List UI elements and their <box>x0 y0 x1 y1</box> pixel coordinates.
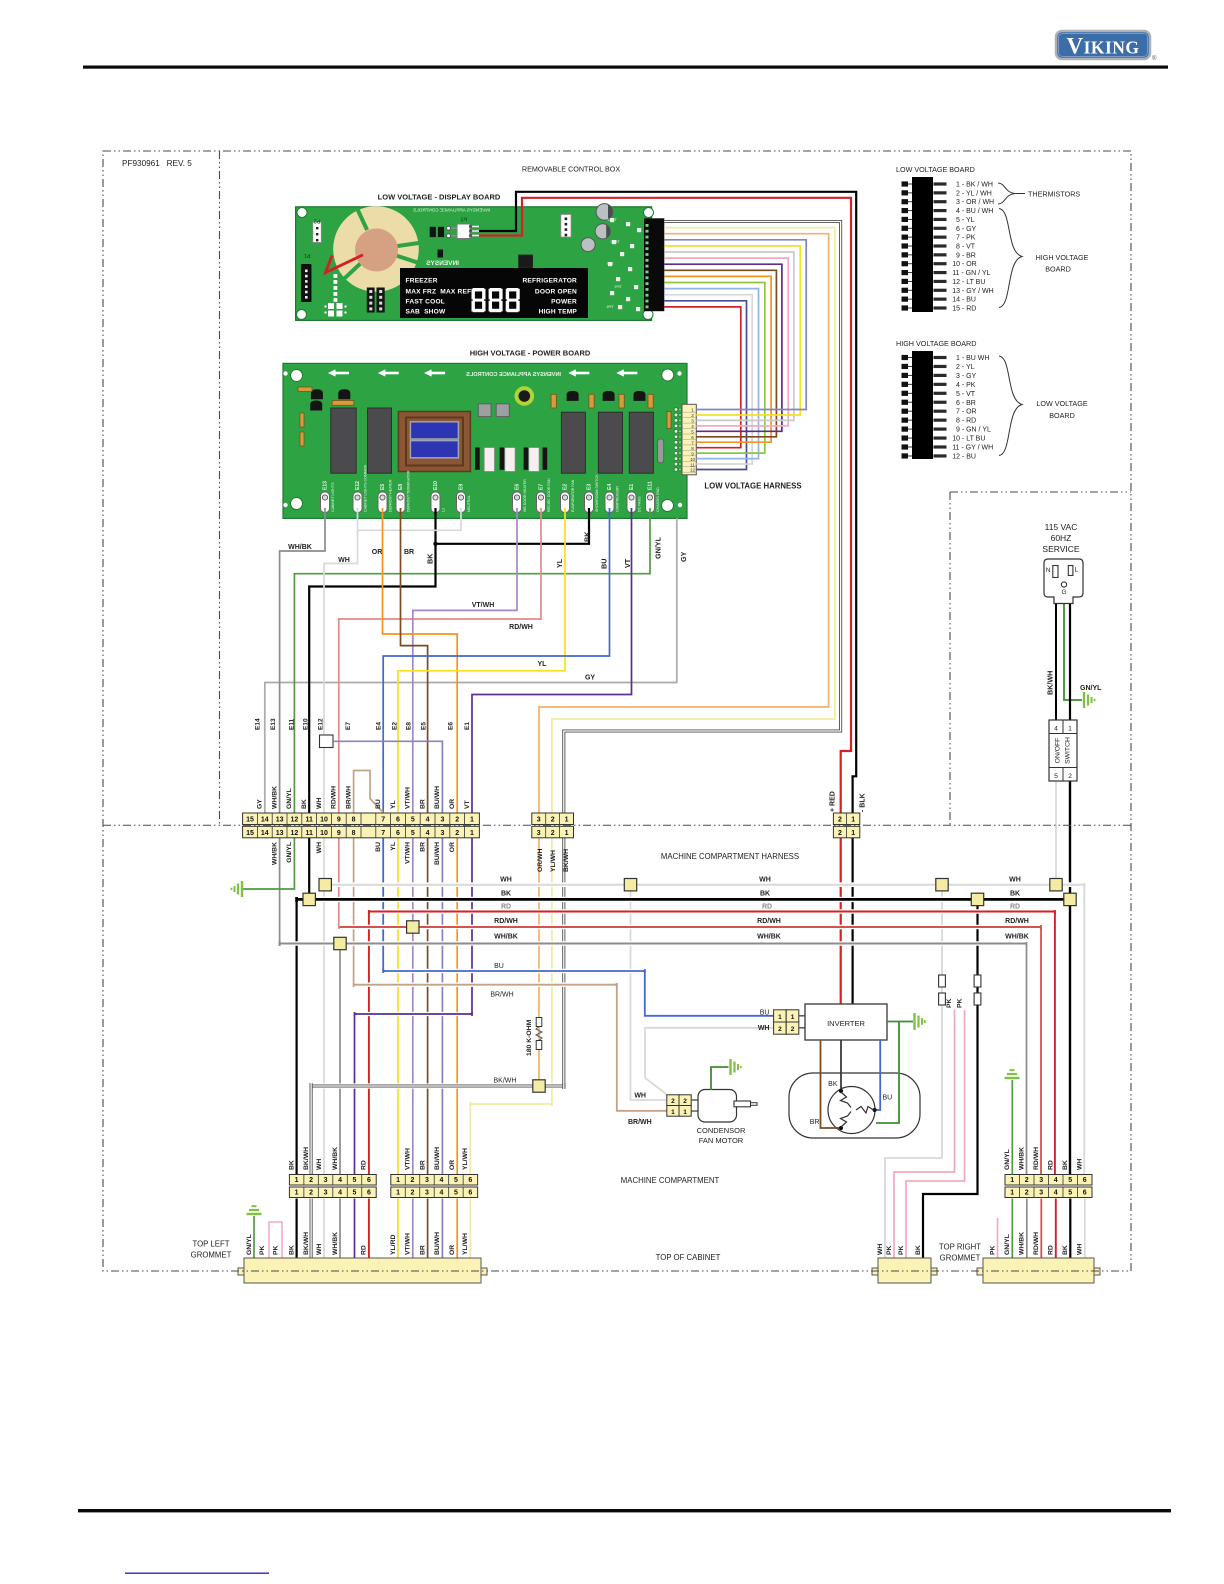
svg-text:2: 2 <box>411 1190 415 1197</box>
wire harness RD display pin15 to power pin <box>664 307 741 448</box>
wire BU strip pin7 to inverter connector <box>383 837 773 1016</box>
svg-text:6 - GY: 6 - GY <box>956 226 977 233</box>
display board aux connector 2d <box>561 214 571 237</box>
svg-text:E6: E6 <box>515 484 521 490</box>
svg-text:PK: PK <box>898 1245 905 1255</box>
svg-text:WH: WH <box>759 877 771 884</box>
svg-text:6: 6 <box>367 1190 371 1197</box>
svg-text:BK: BK <box>288 1245 295 1255</box>
svg-text:BK: BK <box>1062 1160 1069 1170</box>
svg-text:WH: WH <box>316 798 323 809</box>
svg-text:1: 1 <box>851 830 855 837</box>
svg-text:7: 7 <box>381 830 385 837</box>
svg-text:11 - GN / YL: 11 - GN / YL <box>952 270 990 277</box>
svg-text:SWITCH: SWITCH <box>1065 737 1072 764</box>
svg-text:BK: BK <box>301 799 308 809</box>
bus BU to inverter <box>385 969 643 973</box>
power board small transistors and resistors <box>298 387 671 446</box>
svg-text:RD: RD <box>1010 904 1020 911</box>
svg-text:8 - RD: 8 - RD <box>956 418 976 425</box>
svg-text:EVAPORATOR FAN: EVAPORATOR FAN <box>571 479 575 512</box>
svg-text:LOW VOLTAGE - DISPLAY BOARD: LOW VOLTAGE - DISPLAY BOARD <box>378 193 501 202</box>
svg-text:RD: RD <box>1048 1245 1055 1255</box>
display board P3 connector <box>447 218 480 239</box>
svg-text:WH/BK: WH/BK <box>1019 1232 1026 1255</box>
svg-text:2: 2 <box>455 817 459 824</box>
svg-text:HIGH TEMP: HIGH TEMP <box>539 309 578 316</box>
label CONDENSOR FAN MOTOR <box>697 1126 746 1145</box>
svg-text:P1: P1 <box>304 252 311 258</box>
svg-text:BK: BK <box>501 891 511 898</box>
high voltage board brace <box>999 209 1089 308</box>
wire harness GY display pin6 to power pin <box>664 252 794 420</box>
svg-text:GN/YL: GN/YL <box>1004 1149 1011 1170</box>
svg-text:6: 6 <box>691 435 694 440</box>
svg-text:YL/WH: YL/WH <box>462 1233 469 1255</box>
resistor 180 K-OHM on OR/WH wire <box>526 1018 542 1057</box>
svg-text:CONDENSOR: CONDENSOR <box>697 1126 746 1135</box>
svg-text:14 - BU: 14 - BU <box>952 297 976 304</box>
svg-text:PK: PK <box>272 1245 279 1255</box>
svg-text:1: 1 <box>851 817 855 824</box>
wire BK/WH 321conn pin1 via run to bottom connector A2 <box>311 837 564 1175</box>
svg-text:3: 3 <box>440 830 444 837</box>
svg-text:5 - YL: 5 - YL <box>956 217 975 224</box>
display board P2 connector <box>313 218 322 243</box>
wire OR from E5 to strip pin2 <box>383 508 458 813</box>
svg-text:GN/YL: GN/YL <box>286 842 293 863</box>
svg-text:12 - BU: 12 - BU <box>952 453 976 460</box>
svg-text:- BLK: - BLK <box>860 793 867 812</box>
wire VT from E1 to strip pin1 <box>472 508 632 813</box>
bus labels mid group <box>757 877 781 941</box>
svg-text:1: 1 <box>778 1014 782 1021</box>
connector strip 3 2 1 <box>532 813 574 825</box>
wire BR/WH loop at strip pin8 <box>354 771 384 814</box>
svg-text:CABINET LIGHTS: CABINET LIGHTS <box>331 482 335 512</box>
power board terminal row <box>321 464 661 512</box>
svg-text:MAX FRZ MAX REF: MAX FRZ MAX REF <box>406 289 472 296</box>
svg-text:1: 1 <box>470 830 474 837</box>
svg-text:5: 5 <box>454 1190 458 1197</box>
svg-text:TOP OF CABINET: TOP OF CABINET <box>656 1253 721 1262</box>
wire RD/WH from E7 to strip pin9 <box>339 508 541 813</box>
svg-text:BR: BR <box>810 1119 820 1126</box>
svg-text:14: 14 <box>261 830 269 837</box>
svg-text:6: 6 <box>367 1177 371 1184</box>
condenser fan connector 2x2 <box>667 1095 691 1116</box>
svg-text:2: 2 <box>1068 773 1072 780</box>
svg-text:®: ® <box>1152 55 1157 62</box>
svg-text:10 - OR: 10 - OR <box>952 261 977 268</box>
svg-text:9: 9 <box>337 817 341 824</box>
svg-text:REFRIGERATOR: REFRIGERATOR <box>522 278 577 285</box>
bus RD/WH machine harness <box>341 925 1039 930</box>
wire WH top right vertical from bus corner to connector C6 <box>1083 885 1085 1175</box>
svg-text:SERVICE: SERVICE <box>1042 544 1079 554</box>
svg-text:WH: WH <box>634 1093 646 1100</box>
svg-text:3: 3 <box>1039 1190 1043 1197</box>
svg-text:YL/WH: YL/WH <box>550 850 557 872</box>
bus labels left group <box>490 877 518 1085</box>
svg-text:BR/WH: BR/WH <box>628 1119 652 1126</box>
display board pad cluster <box>325 303 347 317</box>
wire WH/BK from E13 to strip pin13 <box>280 508 325 813</box>
svg-text:VT/WH: VT/WH <box>405 842 412 864</box>
wire WH/BK bus drop to connector A4 <box>339 944 341 1175</box>
display board white pad column <box>334 274 338 302</box>
ground symbol fan <box>731 1059 741 1075</box>
svg-text:WH: WH <box>500 877 512 884</box>
svg-text:E3: E3 <box>587 484 593 490</box>
svg-text:7: 7 <box>691 440 694 445</box>
svg-text:BK/WH: BK/WH <box>303 1232 310 1255</box>
wire GN fan to ground <box>711 1067 729 1090</box>
svg-text:12: 12 <box>291 817 299 824</box>
top right grommet bar <box>977 1258 1100 1283</box>
svg-text:2: 2 <box>691 413 694 418</box>
svg-text:8 - VT: 8 - VT <box>956 243 976 250</box>
svg-text:GN/YL: GN/YL <box>1080 685 1102 692</box>
svg-text:RD/WH: RD/WH <box>757 918 781 925</box>
svg-text:WH/BK: WH/BK <box>271 842 278 865</box>
wire YL from E2 to strip pin6 <box>398 508 565 813</box>
svg-text:1 - BK / WH: 1 - BK / WH <box>956 182 993 189</box>
wire BK strip pin11 to BK bus junction <box>308 837 310 900</box>
svg-text:TP22: TP22 <box>607 217 617 222</box>
svg-text:1: 1 <box>791 1014 795 1021</box>
svg-text:DOOR OPEN: DOOR OPEN <box>535 289 577 296</box>
removable control box divider <box>219 151 221 825</box>
svg-text:3: 3 <box>324 1177 328 1184</box>
svg-text:INVENSYS APPLIANCE CONTROLS: INVENSYS APPLIANCE CONTROLS <box>466 372 561 378</box>
wires below connector C to top right grommet <box>1011 1199 1013 1259</box>
label TOP LEFT GROMMET <box>191 1240 232 1260</box>
wire harness BU/WH display pin4 to power pin <box>664 240 806 410</box>
inline connectors on BK drop <box>974 975 981 987</box>
service compartment border <box>950 492 1131 825</box>
svg-text:GN/YL: GN/YL <box>286 788 293 809</box>
svg-text:VT/WH: VT/WH <box>405 1233 412 1255</box>
svg-text:BK: BK <box>1062 1245 1069 1255</box>
svg-text:RD: RD <box>762 904 772 911</box>
svg-text:11: 11 <box>690 462 695 467</box>
small right grommet bar <box>872 1258 937 1283</box>
wire BU/WH from E12 box to strip pin3 <box>333 741 442 813</box>
svg-text:12 - LT BU: 12 - LT BU <box>952 279 985 286</box>
wire BK switch pin2 to BK bus and top right connector C5 <box>1069 781 1071 1175</box>
wire BK inverter to compressor <box>840 1040 842 1089</box>
svg-text:TP12: TP12 <box>610 239 620 244</box>
svg-text:WH/BK: WH/BK <box>1005 934 1029 941</box>
bus WH/BK machine harness <box>282 941 1025 946</box>
svg-text:E9: E9 <box>459 484 465 490</box>
bus BK machine harness <box>299 897 1069 902</box>
svg-text:4 - PK: 4 - PK <box>956 382 976 389</box>
svg-text:HIGH VOLTAGE BOARD: HIGH VOLTAGE BOARD <box>896 339 976 348</box>
labels above connector B <box>405 1147 470 1170</box>
svg-text:8: 8 <box>352 830 356 837</box>
wire OR/WH display pin3 down right side <box>539 234 829 813</box>
svg-text:3: 3 <box>425 1190 429 1197</box>
wire BK/WH service plug to switch pin4 <box>1055 603 1057 720</box>
wire WH/BK top right from bus corner to connector C2 <box>1026 944 1028 1175</box>
svg-text:VT/WH: VT/WH <box>405 1148 412 1170</box>
svg-text:SAB SHOW: SAB SHOW <box>406 309 446 316</box>
svg-text:5: 5 <box>353 1190 357 1197</box>
svg-text:7: 7 <box>381 817 385 824</box>
on/off switch S1 <box>1049 720 1077 781</box>
svg-text:8: 8 <box>691 446 694 451</box>
svg-text:ON/OFF: ON/OFF <box>1055 738 1062 764</box>
svg-text:PF930961 REV. 5: PF930961 REV. 5 <box>122 159 192 168</box>
display board dual pin headers <box>367 288 385 313</box>
svg-text:BU: BU <box>600 559 609 569</box>
labels above top left grommet <box>246 1232 469 1255</box>
svg-text:YL/RD: YL/RD <box>390 1235 397 1255</box>
svg-text:E2: E2 <box>563 484 569 490</box>
svg-text:5: 5 <box>411 830 415 837</box>
svg-text:E4: E4 <box>607 484 613 490</box>
svg-text:E8: E8 <box>398 484 404 490</box>
svg-text:RD/WH: RD/WH <box>1005 918 1029 925</box>
wire WH strip pin10 through WH bus to bottom connector A3 <box>323 837 325 1175</box>
wire WH switch pin5 to WH bus <box>1055 781 1057 885</box>
wire BK bus drop to small grommet <box>923 899 978 1258</box>
wire BK service plug to switch pin1 <box>1069 603 1071 720</box>
bus BR/WH to fan <box>356 983 615 987</box>
svg-text:180 K-OHM: 180 K-OHM <box>526 1019 533 1056</box>
outer dashed border <box>103 151 1131 1271</box>
svg-text:L1: L1 <box>442 508 446 512</box>
svg-text:WH/BK: WH/BK <box>757 934 781 941</box>
svg-text:2: 2 <box>778 1026 782 1033</box>
wire BR/WH bus to condenser fan connector <box>354 985 667 1111</box>
svg-text:BR/WH: BR/WH <box>345 786 352 809</box>
svg-text:5: 5 <box>691 430 694 435</box>
svg-text:E13: E13 <box>323 481 329 490</box>
svg-text:10: 10 <box>320 830 328 837</box>
svg-text:12: 12 <box>291 830 299 837</box>
wire GN/YL strip pin12 to ground <box>242 837 294 890</box>
seven segment 888 display <box>472 288 520 312</box>
svg-text:BK: BK <box>760 891 770 898</box>
svg-text:7 - OR: 7 - OR <box>956 409 977 416</box>
svg-text:BK: BK <box>915 1245 922 1255</box>
svg-text:1: 1 <box>470 817 474 824</box>
svg-text:13 - GY / WH: 13 - GY / WH <box>952 288 994 295</box>
svg-text:2: 2 <box>309 1177 313 1184</box>
svg-text:1: 1 <box>565 830 569 837</box>
svg-text:LOW VOLTAGE BOARD: LOW VOLTAGE BOARD <box>896 165 975 174</box>
svg-text:COMPRESSOR: COMPRESSOR <box>616 486 620 512</box>
wire VT/WH from E6 to strip pin5 <box>413 508 517 813</box>
svg-text:BK/WH: BK/WH <box>1046 671 1055 695</box>
labels above small grommet WH PK PK BK <box>877 1244 922 1255</box>
svg-text:4: 4 <box>426 830 430 837</box>
svg-text:115 VAC: 115 VAC <box>1045 522 1078 532</box>
thermistors brace <box>998 183 1080 204</box>
wire RD bottom left from bus corner to connector A6 <box>368 912 370 1175</box>
svg-text:2: 2 <box>411 1177 415 1184</box>
E-terminal reference labels row <box>255 718 471 730</box>
compressor motor windings <box>839 1089 877 1130</box>
svg-text:9: 9 <box>337 830 341 837</box>
inverter U3 box <box>805 1004 887 1040</box>
svg-text:WH: WH <box>316 1244 323 1255</box>
svg-text:9: 9 <box>691 451 694 456</box>
svg-text:GY: GY <box>679 551 688 562</box>
svg-text:WH/BK: WH/BK <box>494 934 518 941</box>
svg-text:4: 4 <box>1054 1190 1058 1197</box>
svg-text:1: 1 <box>295 1177 299 1184</box>
svg-text:BK/WH: BK/WH <box>563 849 570 872</box>
compressor M1 <box>789 1073 920 1138</box>
svg-text:PK: PK <box>989 1245 996 1255</box>
svg-text:CHASSIS GND: CHASSIS GND <box>656 487 660 512</box>
svg-text:5 - VT: 5 - VT <box>956 391 976 398</box>
svg-text:PK: PK <box>259 1245 266 1255</box>
wire GN/YL from E11 to strip pin12 <box>294 508 650 813</box>
svg-text:CABINET LIGHTS COMMON: CABINET LIGHTS COMMON <box>364 464 368 512</box>
svg-text:5: 5 <box>1054 773 1058 780</box>
power board U2 PCB <box>283 363 687 518</box>
wire BU inverter to compressor <box>877 1040 881 1110</box>
svg-text:1: 1 <box>396 1177 400 1184</box>
wire harness GN/YL display pin11 to power pin <box>664 283 765 454</box>
svg-text:11 - GY / WH: 11 - GY / WH <box>952 445 993 452</box>
svg-text:FAN MOTOR: FAN MOTOR <box>699 1136 744 1145</box>
svg-text:5: 5 <box>411 817 415 824</box>
svg-text:2: 2 <box>309 1190 313 1197</box>
svg-text:1: 1 <box>565 817 569 824</box>
wire harness PK display pin7 to power pin <box>664 258 788 426</box>
labels above connector A <box>288 1147 367 1170</box>
svg-text:E11: E11 <box>289 718 296 730</box>
svg-text:RD: RD <box>501 904 511 911</box>
wire PK stub top right grommet <box>997 1218 999 1258</box>
svg-text:10: 10 <box>690 457 696 462</box>
svg-text:FREEZER: FREEZER <box>406 278 438 285</box>
bus BK/WH run <box>313 1083 562 1088</box>
svg-text:WH/BK: WH/BK <box>271 786 278 809</box>
wire BR from E8 to strip pin4 <box>401 508 428 813</box>
svg-text:5: 5 <box>1068 1177 1072 1184</box>
wire YL strip pin6 to bottom connector B1 <box>397 837 399 1175</box>
svg-text:4: 4 <box>1054 726 1058 733</box>
power board arrows <box>328 369 637 376</box>
label TOP RIGHT GROMMET <box>939 1243 981 1263</box>
svg-text:WB DOOR HEATER: WB DOOR HEATER <box>523 479 527 512</box>
display board small resistors <box>430 227 444 258</box>
svg-text:OR: OR <box>449 799 456 809</box>
svg-text:RD/WH: RD/WH <box>1033 1232 1040 1255</box>
wire RD/WH top right from bus corner to connector C3 <box>1040 927 1042 1175</box>
svg-text:BU: BU <box>883 1095 893 1102</box>
wire BR inverter to compressor <box>821 1040 840 1128</box>
svg-text:15: 15 <box>246 830 254 837</box>
svg-text:YL: YL <box>538 661 548 668</box>
svg-text:BK: BK <box>828 1081 838 1088</box>
wire BK from E10 and E3 to strip pin11 <box>436 508 590 544</box>
bus labels right group <box>1005 877 1029 941</box>
svg-text:RD/WH: RD/WH <box>1033 1147 1040 1170</box>
svg-text:WH: WH <box>1077 1159 1084 1170</box>
svg-text:4: 4 <box>439 1177 443 1184</box>
wire labels below main strip <box>271 842 456 865</box>
svg-text:WH/BK: WH/BK <box>1019 1147 1026 1170</box>
svg-text:FAST COOL: FAST COOL <box>406 299 446 306</box>
svg-text:10 - LT BU: 10 - LT BU <box>952 436 985 443</box>
condenser fan motor M2 <box>691 1090 757 1123</box>
Viking logo <box>1056 31 1157 62</box>
svg-text:2: 2 <box>1025 1190 1029 1197</box>
svg-text:YL: YL <box>390 842 397 851</box>
svg-text:E6: E6 <box>447 722 454 730</box>
svg-text:2: 2 <box>551 817 555 824</box>
svg-text:P2: P2 <box>314 218 321 224</box>
harness wire labels row1 <box>288 544 414 564</box>
display board test point pads <box>606 217 641 311</box>
svg-text:4: 4 <box>691 424 694 429</box>
svg-text:E12: E12 <box>355 481 361 490</box>
power board toroid L1 <box>517 388 533 404</box>
svg-text:E14: E14 <box>255 718 262 730</box>
svg-text:3: 3 <box>537 817 541 824</box>
svg-text:BK: BK <box>426 553 435 564</box>
svg-text:MACHINE COMPARTMENT HARNESS: MACHINE COMPARTMENT HARNESS <box>661 852 799 861</box>
wire BK bottom left from bus corner to connector A1 <box>296 899 298 1174</box>
wire harness BU display pin14 to power pin <box>664 301 746 470</box>
svg-text:RD: RD <box>361 1160 368 1170</box>
display LCD panel <box>400 268 588 318</box>
svg-text:E12: E12 <box>318 718 325 730</box>
svg-text:GY: GY <box>257 799 264 809</box>
svg-text:BR: BR <box>419 842 426 852</box>
svg-text:WH: WH <box>1077 1244 1084 1255</box>
svg-text:VT/WH: VT/WH <box>405 787 412 809</box>
wire GN/YL ground above connector C <box>1011 1080 1013 1175</box>
svg-text:E1: E1 <box>629 484 635 490</box>
svg-text:PK: PK <box>886 1245 893 1255</box>
svg-text:BK: BK <box>583 531 592 542</box>
svg-text:BU/WH: BU/WH <box>434 842 441 865</box>
svg-text:4: 4 <box>338 1190 342 1197</box>
svg-text:60HZ: 60HZ <box>1051 533 1072 543</box>
high voltage board connector block <box>902 351 994 460</box>
svg-text:OR: OR <box>449 1245 456 1255</box>
wire PK pair to small grommet <box>894 1010 955 1258</box>
display board IC chip <box>518 255 533 268</box>
wire YL/WH display pin2 down right side <box>552 228 835 813</box>
svg-text:BK/WH: BK/WH <box>303 1147 310 1170</box>
svg-text:GN/YL: GN/YL <box>246 1234 253 1255</box>
svg-text:4 - BU / WH: 4 - BU / WH <box>956 208 993 215</box>
svg-text:WH: WH <box>877 1244 884 1255</box>
display board capacitors <box>581 204 613 252</box>
svg-text:3: 3 <box>440 817 444 824</box>
ground symbol above connector C <box>1005 1070 1020 1078</box>
svg-text:2: 2 <box>683 1098 687 1105</box>
svg-text:13: 13 <box>276 817 284 824</box>
svg-text:15 - RD: 15 - RD <box>952 305 976 312</box>
harness horizontal wire labels <box>472 602 596 682</box>
wire WH bus drop to small grommet <box>885 885 942 1258</box>
svg-text:6 - BR: 6 - BR <box>956 400 976 407</box>
svg-text:WH: WH <box>758 1025 770 1032</box>
svg-text:OR: OR <box>372 549 383 556</box>
svg-text:L: L <box>1075 567 1079 574</box>
